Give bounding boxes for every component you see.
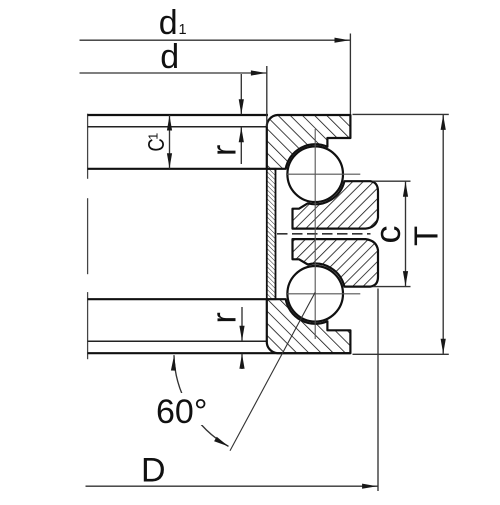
C extension lines — [373, 180, 411, 182]
svg-text:r: r — [206, 312, 244, 323]
svg-text:d: d — [160, 38, 179, 76]
lower ball horizontal centerline — [286, 293, 360, 295]
dimension d line — [80, 72, 267, 74]
upper ball horizontal centerline — [286, 173, 360, 175]
svg-text:60°: 60° — [156, 393, 207, 431]
upper ball — [287, 146, 343, 202]
contact angle line 60deg — [230, 292, 315, 451]
svg-text:1: 1 — [146, 133, 160, 140]
D extension line — [377, 289, 379, 492]
svg-text:T: T — [408, 226, 445, 246]
dimension d1 line — [80, 39, 351, 41]
r extension line through top rectangle — [88, 126, 267, 128]
svg-text:d: d — [159, 4, 178, 42]
bottom shaft washer left section lines — [88, 299, 351, 353]
dimension r top arrows — [240, 74, 242, 114]
lower ball — [287, 266, 343, 322]
inner spacer strip dense hatch — [267, 169, 276, 299]
ball common vertical centerline — [314, 129, 316, 339]
outer ring upper half hatched section — [293, 181, 379, 228]
svg-text:c: c — [367, 226, 408, 244]
top inner washer hatched section — [267, 115, 351, 169]
outer ring split dashed centerline — [277, 233, 371, 235]
angle arc 60deg — [174, 355, 229, 446]
label 60deg — [152, 393, 214, 425]
r extension line through bottom rectangle — [88, 340, 267, 342]
dimension D line — [86, 485, 379, 487]
svg-text:1: 1 — [179, 22, 187, 38]
dimension C1 line with arrows — [169, 115, 171, 169]
d extension line — [266, 66, 268, 127]
T extension lines — [353, 113, 449, 115]
dimension r bottom arrows — [241, 307, 243, 341]
svg-text:D: D — [141, 451, 166, 489]
bottom inner washer hatched section — [267, 299, 351, 353]
svg-text:r: r — [206, 145, 244, 156]
outer ring lower half hatched section — [293, 239, 379, 287]
dimension C line — [405, 181, 407, 286]
dimension T line — [442, 115, 444, 354]
d1 extension line — [349, 34, 351, 115]
top shaft washer left section lines — [88, 115, 268, 169]
bearing axis centerline — [87, 114, 89, 360]
